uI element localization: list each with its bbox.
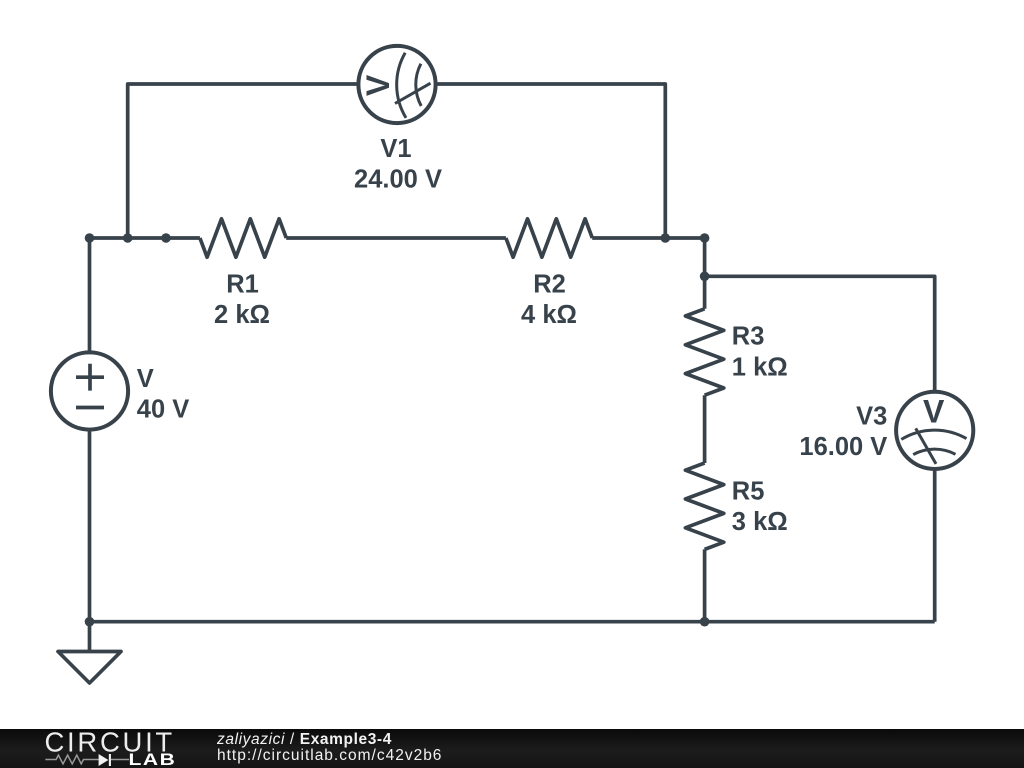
wire mid rail left segment [90, 236, 200, 240]
svg-text:16.00 V: 16.00 V [799, 433, 887, 461]
junction dot mid wire / R1 terminal [161, 233, 171, 243]
wire between R1 and R2 [286, 236, 506, 240]
ground [58, 652, 121, 684]
voltage source V minus sign [76, 406, 104, 410]
footer url text [217, 747, 442, 765]
svg-text:3 kΩ: 3 kΩ [732, 508, 788, 536]
svg-text:V3: V3 [856, 403, 887, 431]
wire R2 to node B [592, 236, 704, 240]
svg-text:V: V [923, 393, 945, 429]
footer title text [217, 731, 392, 749]
wire top-left loop to V1 [128, 84, 359, 238]
junction dot R5 / bottom rail [700, 617, 710, 627]
voltmeter V1 (rotated) [358, 46, 435, 123]
junction dot left rail / bottom rail [85, 617, 95, 627]
voltage source V circle [51, 352, 128, 429]
footer bar [0, 729, 1024, 768]
wire bottom rail [90, 620, 935, 624]
svg-text:R2: R2 [533, 270, 566, 298]
resistor R2 [506, 219, 592, 257]
junction dot left rail / mid wire [85, 233, 95, 243]
CircuitLab logo CIRCUIT text [0, 729, 210, 768]
CircuitLab logo squiggle resistor [45, 755, 98, 764]
svg-text:R1: R1 [226, 270, 259, 298]
svg-text:R5: R5 [732, 478, 765, 506]
CircuitLab logo diode [99, 754, 109, 766]
svg-text:24.00 V: 24.00 V [354, 166, 442, 194]
wire left rail lower [88, 430, 92, 622]
svg-text:R3: R3 [732, 323, 765, 351]
junction dot top loop / mid wire [123, 233, 133, 243]
wire node B branch to V3 [705, 276, 935, 391]
wire left rail upper [88, 238, 92, 352]
wire R5 to bottom rail [703, 549, 707, 621]
voltmeter V3 [896, 392, 973, 469]
resistor R5 [685, 463, 723, 549]
svg-text:2 kΩ: 2 kΩ [214, 301, 270, 329]
junction dot node B / V3 branch [700, 272, 710, 282]
wire V3 bottom to rail [933, 469, 937, 622]
svg-text:40 V: 40 V [137, 395, 189, 423]
wire V1 right to mid node [435, 84, 665, 238]
svg-text:LAB: LAB [129, 750, 177, 768]
wire ground stub [88, 622, 92, 652]
resistor R3 [685, 309, 723, 395]
wire R3 to R5 [703, 395, 707, 463]
voltage source V plus sign [76, 364, 104, 391]
svg-text:V: V [137, 365, 154, 393]
svg-text:1 kΩ: 1 kΩ [732, 353, 788, 381]
svg-text:4 kΩ: 4 kΩ [521, 301, 577, 329]
resistor R1 [200, 219, 286, 257]
junction dot V1 right leg / mid wire [661, 233, 671, 243]
svg-text:V: V [360, 74, 396, 96]
svg-text:V1: V1 [380, 135, 411, 163]
wire node B to R3 [703, 238, 707, 309]
junction dot node B [700, 233, 710, 243]
